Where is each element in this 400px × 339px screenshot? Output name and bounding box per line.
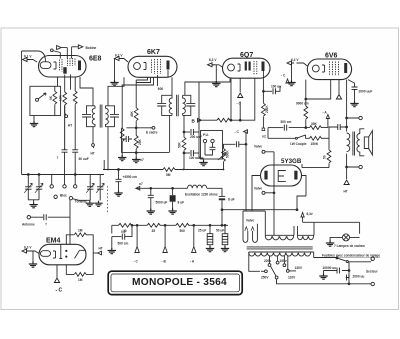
transformer heater winding — [298, 222, 315, 239]
wire filter bus — [221, 209, 298, 226]
resistor avc 1M — [217, 118, 230, 122]
varcap 1 — [24, 175, 39, 200]
tube 6V6 — [307, 59, 351, 80]
capacitor avc left — [122, 128, 133, 153]
wire tankA1 bottom HT — [92, 127, 95, 148]
terminal heater 6V6 — [287, 61, 294, 65]
svg-text:n7: n7 — [140, 158, 144, 162]
terminal output bottom — [359, 165, 362, 168]
capacitor +4500cm — [116, 169, 122, 191]
wire 6Q7 cathode down — [230, 78, 232, 121]
wire tankB1 top — [171, 77, 173, 95]
capacitor 200uuF — [183, 129, 199, 135]
transformer HV winding — [252, 211, 294, 240]
terminal valve bottom — [262, 191, 265, 194]
wire 6,3v arrow — [303, 217, 358, 222]
capacitor 2000uu mains — [346, 270, 350, 281]
terminal grid cap 6E8 — [51, 49, 61, 53]
ground cathode 6K7 — [118, 155, 126, 161]
svg-text:200K: 200K — [265, 105, 269, 113]
capacitor 0,5 500cm — [112, 224, 133, 239]
svg-text:10K: 10K — [59, 94, 63, 101]
tap 190v — [276, 256, 279, 264]
wire 5Y3 filament bottom — [265, 192, 275, 194]
trimmer Osc — [36, 93, 47, 101]
wire tankA2 top — [108, 77, 124, 106]
capacitor 10000uu — [324, 262, 350, 275]
wire tankB1 bottom — [169, 115, 171, 152]
capacitor 100uu — [263, 86, 280, 94]
wire 5Y3 center tap — [273, 193, 275, 236]
gang dashed link — [107, 186, 109, 214]
svg-text:50K: 50K — [178, 141, 182, 148]
svg-text:110V: 110V — [288, 276, 296, 280]
marker -C EM4 — [54, 278, 59, 283]
terminal P.U. 1 — [203, 139, 206, 142]
svg-text:Antenne: Antenne — [22, 223, 35, 227]
svg-text:500 cm: 500 cm — [118, 242, 129, 246]
transformer core — [247, 247, 313, 249]
capacitor 2000uuF cathode — [352, 87, 358, 89]
ground EM4 — [29, 262, 37, 268]
terminal heater 6E8 — [23, 58, 30, 62]
wire fuse line — [314, 252, 371, 262]
terminal heater 6Q7 — [208, 63, 215, 67]
svg-text:Bloc: Bloc — [60, 193, 67, 197]
capacitor 100uuF — [183, 150, 199, 156]
wire 6E8 bottoms — [58, 75, 76, 91]
wire bias chain — [112, 225, 228, 233]
ground 25K — [135, 153, 137, 157]
ground heater 6K7 left — [110, 80, 118, 86]
IF can A tank 2 — [106, 106, 120, 127]
svg-text:220v: 220v — [264, 259, 271, 263]
tap 130v — [286, 256, 296, 272]
svg-text:- B: - B — [162, 260, 167, 264]
svg-text:Bobine: Bobine — [86, 46, 97, 50]
ground lamp — [326, 241, 334, 247]
wire tankB2 top to 6Q7 — [185, 78, 230, 95]
ground P.U. — [203, 159, 205, 161]
wire grid coupling 6Q7 — [239, 132, 247, 212]
svg-text:6,3 V: 6,3 V — [291, 58, 299, 62]
ground 8uF first — [168, 209, 176, 215]
wire volume top — [224, 144, 236, 148]
wire mains bottom — [331, 280, 371, 285]
svg-text:5K: 5K — [49, 95, 53, 100]
varcap 2 — [35, 175, 43, 200]
tube 6K7 — [128, 56, 177, 77]
resistor bias 40 — [119, 223, 132, 227]
IF can B core — [177, 95, 179, 116]
ground varcaps 1+2 — [29, 200, 37, 208]
capacitor 8uF second — [219, 196, 225, 209]
arrow -A chain — [192, 224, 196, 252]
resistor 10K — [63, 90, 67, 150]
svg-text:n7: n7 — [139, 182, 143, 186]
svg-text:- A: - A — [323, 111, 328, 115]
arrow valve winding 2 — [251, 227, 254, 231]
terminal antenna — [27, 216, 30, 219]
terminal B avc — [197, 118, 202, 122]
wire heater EM4 — [27, 251, 40, 262]
resistor 25K — [134, 128, 138, 153]
resistor 1M bottom — [74, 273, 86, 277]
svg-text:500: 500 — [180, 229, 186, 233]
junction bus dots — [107, 169, 224, 171]
IF can B tank 1 — [157, 95, 172, 115]
tap 220v — [268, 256, 271, 266]
terminal antenna coil 2 — [72, 45, 83, 49]
resistor 30K — [306, 126, 328, 130]
ground heater 6Q7 — [212, 81, 220, 87]
svg-text:Fusibles avec condensateur de: Fusibles avec condensateur de visage — [322, 253, 380, 257]
speaker — [364, 131, 372, 155]
svg-text:6,3 V: 6,3 V — [209, 58, 217, 62]
arrow valve winding 1 — [245, 227, 248, 231]
box P.U. — [201, 131, 223, 160]
resistor 1M top — [74, 233, 86, 237]
svg-text:130V: 130V — [295, 266, 303, 270]
terminal E cadre — [150, 126, 155, 129]
svg-text:Valve: Valve — [254, 145, 262, 149]
marker -C 6Q7 — [238, 93, 243, 98]
wire primary bottom HT — [346, 154, 348, 179]
resistor 150K — [310, 136, 330, 140]
svg-text:600: 600 — [158, 87, 164, 91]
terminal antenna coil 1 — [57, 46, 68, 50]
ground varcap 4 — [94, 201, 102, 207]
resistor 5K — [53, 86, 57, 115]
capacitor padder 2 — [72, 150, 78, 152]
tube EM4 — [39, 244, 86, 264]
svg-text:6K7: 6K7 — [147, 49, 160, 56]
switch mains selector — [271, 266, 332, 284]
svg-text:- A: - A — [190, 260, 195, 264]
resistor cathode 6K7 — [122, 85, 136, 129]
transformer output secondary — [357, 129, 364, 156]
ground 50uF — [221, 246, 229, 252]
svg-text:50 uuF: 50 uuF — [79, 157, 89, 161]
capacitor 500cm — [268, 125, 307, 131]
transformer output core — [353, 132, 355, 156]
IF can B tank 2 — [183, 95, 196, 115]
terminal secteur bottom — [371, 282, 374, 285]
wire lamp branch — [330, 222, 360, 241]
IF can A core — [100, 105, 102, 128]
wire 6K7 bottoms — [136, 70, 168, 108]
svg-text:Valve: Valve — [246, 219, 254, 223]
svg-text:5Y3GB: 5Y3GB — [281, 158, 302, 165]
wire B+ second line — [140, 188, 222, 196]
terminal bloc 4 — [54, 195, 57, 198]
ground 10000uu — [319, 274, 327, 280]
svg-text:30K: 30K — [311, 122, 318, 126]
capacitor tone — [329, 124, 344, 130]
wire junction row 152.6 — [122, 152, 170, 154]
svg-text:- C: - C — [281, 74, 286, 78]
tube 5Y3GB — [261, 165, 302, 186]
svg-text:- C: - C — [235, 130, 240, 134]
capacitor coupling vol — [236, 141, 238, 147]
ground varcap 3 — [86, 201, 94, 207]
capacitor 25uF — [207, 224, 213, 247]
wire 6V6 anode down — [344, 80, 348, 132]
arrow potentiometer — [218, 153, 226, 161]
svg-text:190v: 190v — [280, 259, 287, 263]
IF can A tank 1 — [82, 106, 95, 127]
svg-text:?: ? — [45, 223, 47, 227]
terminal n7 line — [136, 187, 141, 191]
oscillator box — [30, 86, 61, 115]
svg-text:0,5: 0,5 — [121, 230, 126, 234]
wire left long vertical — [22, 51, 46, 175]
wire 6V6 cathode caps — [348, 80, 355, 102]
wire avc junction — [127, 127, 153, 129]
switch fuse — [336, 257, 348, 263]
svg-text:EM4: EM4 — [46, 238, 61, 245]
svg-text:HT: HT — [91, 152, 95, 156]
svg-text:P.U.: P.U. — [203, 133, 209, 137]
svg-text:500 cm: 500 cm — [281, 120, 292, 124]
capacitor padder 1 — [62, 150, 68, 152]
box EM4 resistors — [66, 235, 93, 275]
box MONOPOLE-3564 — [108, 271, 242, 294]
wire tankA2 bottom to bus — [107, 127, 109, 170]
svg-text:25 uF: 25 uF — [198, 229, 206, 233]
svg-text:5000 uF: 5000 uF — [156, 201, 168, 205]
wire primary taps to terminals — [346, 117, 359, 168]
wire 6Q7 anode — [263, 71, 265, 103]
svg-text:+4500 cm: +4500 cm — [123, 175, 138, 179]
svg-text:8 uF: 8 uF — [178, 201, 185, 205]
svg-text:HT: HT — [68, 124, 72, 128]
wire 6Q7 cathode marker — [239, 78, 241, 92]
svg-text:50 uF: 50 uF — [216, 229, 224, 233]
ground oscillator — [33, 116, 35, 122]
capacitor P.U. — [205, 143, 216, 155]
svg-text:- C: - C — [56, 288, 63, 294]
transformer output primary — [347, 133, 350, 152]
svg-text:Secteur: Secteur — [366, 270, 378, 274]
arrow -C chain — [135, 224, 139, 252]
svg-text:100 uu: 100 uu — [271, 85, 281, 89]
svg-text:Valve: Valve — [254, 187, 262, 191]
svg-text:1M: 1M — [78, 278, 83, 282]
capacitor 50uF — [222, 224, 228, 247]
svg-text:2000 uuF: 2000 uuF — [359, 90, 373, 94]
marker -C right arrow — [286, 79, 289, 83]
ground heater 6V6 — [287, 80, 295, 86]
svg-text:HT: HT — [344, 190, 348, 194]
terminal heater 6K7 — [115, 57, 122, 61]
terminal P.U. 2 — [211, 139, 214, 142]
svg-text:40K: 40K — [130, 110, 134, 117]
svg-text:6,3v: 6,3v — [307, 212, 313, 216]
marker -C mid arrow — [244, 130, 248, 134]
capacitor antenna — [44, 214, 46, 220]
wire caps right vertical — [199, 82, 204, 158]
switch I.W couple — [268, 128, 310, 140]
coil excitation field — [188, 185, 207, 188]
resistor 20K — [73, 90, 77, 150]
wire HT bus — [103, 160, 224, 170]
svg-text:150K: 150K — [311, 142, 319, 146]
svg-text:5M: 5M — [166, 173, 171, 177]
marker triangle 6V6 — [338, 80, 340, 94]
arrow -B chain — [163, 224, 167, 252]
svg-text:1M: 1M — [78, 229, 83, 233]
svg-text:500K: 500K — [226, 150, 230, 158]
marker 6,3v — [301, 213, 304, 218]
ground 2000uuF — [350, 101, 358, 107]
svg-text:7 Lampes de cadran: 7 Lampes de cadran — [334, 244, 365, 248]
wire 5Y3 filament top — [265, 152, 274, 193]
wire heater 6Q7 — [212, 65, 223, 82]
svg-text:HT: HT — [99, 247, 103, 251]
wire EM4 grid down — [56, 265, 58, 278]
terminal output top — [359, 116, 362, 119]
wire heater 6K7 — [115, 59, 129, 82]
wire antenna — [31, 200, 71, 245]
resistor 9000cm — [304, 106, 308, 128]
svg-text:9000 cm: 9000 cm — [296, 102, 309, 106]
wire 5Y3 plate left — [243, 176, 261, 224]
svg-text:Excitation 1230 ohms: Excitation 1230 ohms — [185, 193, 218, 197]
transformer primary winding — [249, 252, 314, 271]
wire heater 6V6 — [292, 63, 308, 81]
terminal HT osc — [65, 105, 68, 117]
svg-text:- C: - C — [237, 102, 242, 106]
wire EM4 to HT — [93, 252, 97, 254]
varcap 3 — [86, 175, 94, 201]
svg-text:n2: n2 — [262, 135, 266, 139]
terminal valve top — [262, 150, 265, 153]
tap 160v — [283, 256, 286, 267]
svg-text:50: 50 — [323, 155, 327, 159]
marker HT output — [344, 180, 349, 185]
svg-text:25K: 25K — [138, 138, 142, 145]
svg-text:6V6: 6V6 — [325, 53, 338, 60]
wire tankA1 top — [80, 77, 93, 106]
lamp dial — [343, 234, 350, 241]
wire heater 6E8 left — [27, 60, 37, 63]
ground 5000uF — [147, 209, 155, 215]
svg-text:10000 uu: 10000 uu — [323, 266, 337, 270]
ground bias chain — [111, 237, 113, 249]
potentiometer volume 500K — [222, 149, 226, 170]
svg-text:2000 uu: 2000 uu — [353, 275, 365, 279]
capacitor 8uF first — [170, 187, 176, 210]
svg-text:6E8: 6E8 — [89, 56, 102, 63]
svg-text:?: ? — [57, 156, 59, 160]
wire avc line 6Q7 — [202, 79, 255, 122]
resistor 40K — [134, 108, 138, 128]
svg-text:6Q7: 6Q7 — [240, 52, 253, 59]
ground +4500cm — [114, 191, 122, 197]
terminal tonalite — [69, 196, 72, 199]
svg-text:I.W Couple: I.W Couple — [290, 142, 307, 146]
terminal HT EM4 — [98, 251, 102, 255]
wire tuning gang line — [22, 174, 104, 176]
terminal secteur top — [371, 257, 374, 261]
tap 250v — [261, 270, 267, 273]
resistor 5M — [163, 168, 175, 172]
wire 6E8 top pins — [60, 47, 71, 59]
resistor bias 500 — [176, 223, 189, 227]
capacitor 5000uF — [148, 187, 154, 210]
terminal bloc 1 — [50, 175, 53, 189]
resistor 50K — [183, 115, 185, 137]
resistor 50ohm — [328, 130, 330, 150]
varcap 4 — [96, 175, 104, 201]
tube 6E8 — [39, 56, 87, 78]
wire tona to varcaps — [73, 199, 91, 201]
svg-text:250V: 250V — [261, 276, 269, 280]
resistor 200K — [262, 103, 266, 130]
transformer valve winding — [243, 224, 257, 243]
terminal bloc 2 — [63, 152, 66, 188]
wire 5Y3 plate right — [297, 176, 306, 212]
ground 25uF — [206, 246, 214, 252]
tube 6Q7 — [223, 58, 271, 78]
terminal heater EM4 — [22, 249, 29, 253]
svg-text:35: 35 — [152, 229, 156, 233]
wire 6V6 g2 drop — [305, 80, 331, 100]
terminal bloc 3 — [74, 152, 77, 188]
svg-text:8 uF: 8 uF — [228, 198, 235, 202]
svg-text:E cadre: E cadre — [146, 131, 158, 135]
svg-text:- C: - C — [134, 260, 139, 264]
svg-text:6,3 V: 6,3 V — [24, 246, 32, 250]
wire 6V6 grid drop — [305, 80, 307, 106]
svg-text:MONOPOLE - 3564: MONOPOLE - 3564 — [132, 277, 227, 288]
resistor bias 35 — [147, 223, 160, 227]
